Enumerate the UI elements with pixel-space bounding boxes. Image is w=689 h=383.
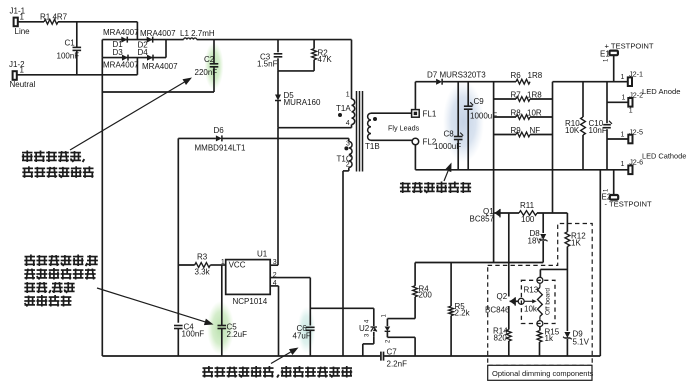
wire neutral <box>17 74 137 76</box>
svg-text:L1 2.7mH: L1 2.7mH <box>180 29 215 38</box>
wire bridge left side <box>101 40 103 58</box>
svg-text:5.1V: 5.1V <box>573 338 590 347</box>
svg-text:D6: D6 <box>214 126 225 135</box>
svg-text:NF: NF <box>530 126 541 135</box>
wire line input <box>18 21 44 23</box>
svg-text:BC857: BC857 <box>470 215 495 224</box>
svg-text:1k: 1k <box>545 334 554 343</box>
capacitor C1 <box>57 22 82 75</box>
ic U1 NCP1014 <box>221 250 277 307</box>
node line to bridge top <box>136 22 138 40</box>
wire R1 to bridge <box>58 21 137 23</box>
svg-text:Q2: Q2 <box>497 292 508 301</box>
svg-text:C8: C8 <box>444 130 455 139</box>
svg-text:T1B: T1B <box>365 142 380 151</box>
label LED Anode <box>642 87 680 96</box>
svg-text:J2-1: J2-1 <box>629 70 643 79</box>
svg-text:47uF: 47uF <box>293 332 311 341</box>
transformer aux T1C <box>337 138 353 171</box>
wire bottom rail right <box>384 355 600 357</box>
label MRA4007 D4 <box>142 62 178 71</box>
svg-text:U1: U1 <box>257 250 268 259</box>
svg-text:1: 1 <box>20 13 25 22</box>
wire bank right to R11 <box>552 135 554 214</box>
wire snubber bottom <box>278 70 314 72</box>
wire pot top branch <box>540 269 567 277</box>
diode D5 <box>275 91 321 107</box>
diode D3 <box>113 48 129 61</box>
resistor R9 <box>494 126 553 137</box>
svg-text:MMBD914LT1: MMBD914LT1 <box>195 144 247 153</box>
resistor R15 <box>537 328 560 357</box>
svg-text:NCP1014: NCP1014 <box>233 297 268 306</box>
svg-text:D7 MURS320T3: D7 MURS320T3 <box>427 71 486 80</box>
highlight ellipse around C6 <box>298 307 316 354</box>
svg-text:1R8: 1R8 <box>528 71 543 80</box>
svg-text:220nF: 220nF <box>195 68 218 77</box>
svg-text:1: 1 <box>622 95 626 102</box>
wire U1 pin4 stub <box>270 286 278 356</box>
resistor R4 <box>413 263 433 300</box>
wire bottom rail left <box>102 355 380 357</box>
svg-text:R11: R11 <box>520 201 535 210</box>
svg-text:C9: C9 <box>474 97 485 106</box>
wire junction to D5 <box>277 71 279 95</box>
wire primary bottom horizontal <box>278 127 352 129</box>
capacitor C2 <box>195 40 219 92</box>
capacitor C10 <box>589 119 613 170</box>
resistor R8 <box>494 108 553 119</box>
svg-text:Optional dimming components: Optional dimming components <box>492 369 594 378</box>
svg-text:R8: R8 <box>511 108 522 117</box>
transistor Q2 <box>485 292 516 315</box>
label MRA4007 D2 <box>140 29 176 38</box>
wire R12 down <box>566 247 568 332</box>
annotation arrow to C6 <box>271 348 299 364</box>
wire D8 to collector line <box>542 241 544 263</box>
svg-text:100: 100 <box>521 215 535 224</box>
svg-text:100nF: 100nF <box>182 330 205 339</box>
annotation arrow to C5 <box>97 288 214 325</box>
testpoint E1 <box>600 42 654 82</box>
diode D7 <box>427 71 486 85</box>
wire aux to D6 <box>178 137 216 139</box>
svg-text:3.3k: 3.3k <box>195 268 211 277</box>
wire bridge right side <box>165 40 167 58</box>
wire secondary bottom to FL2 <box>371 139 412 141</box>
svg-text:1: 1 <box>621 74 625 81</box>
svg-text:E1: E1 <box>600 50 610 59</box>
highlight ellipse around C5 <box>207 301 234 355</box>
svg-text:BC846: BC846 <box>485 306 510 315</box>
optional dimming dashed box <box>488 224 593 366</box>
wire FL1 riser <box>414 82 416 110</box>
annotation add output cap text <box>400 182 471 194</box>
svg-text:1: 1 <box>346 92 350 99</box>
svg-text:1: 1 <box>621 161 625 168</box>
svg-text:T1A: T1A <box>336 104 351 113</box>
wire opto pin2 return <box>387 337 415 356</box>
zener D9 <box>563 330 590 347</box>
label fly leads <box>388 124 420 133</box>
svg-text:J2-5: J2-5 <box>629 128 643 137</box>
wire C3 to junction <box>277 58 279 71</box>
highlight ellipse around C2 <box>205 42 224 90</box>
capacitor C9 <box>464 82 497 170</box>
wire Q2 emitter down <box>508 306 510 330</box>
svg-text:D4: D4 <box>138 48 149 57</box>
annotation arrow to C8 C9 <box>444 163 452 182</box>
svg-text:1: 1 <box>20 66 25 75</box>
transformer secondary T1B <box>365 113 380 151</box>
svg-text:LED Anode: LED Anode <box>642 87 680 96</box>
resistor R12 <box>565 213 586 248</box>
svg-text:R6: R6 <box>511 71 522 80</box>
label MRA4007 D3 <box>103 61 139 70</box>
off board dashed box <box>521 280 555 323</box>
capacitor C4 <box>174 323 204 357</box>
wire Q2 to wiper <box>510 300 519 302</box>
diode D6 <box>195 126 247 153</box>
svg-text:C1: C1 <box>65 39 76 48</box>
resistor R5 <box>449 263 471 357</box>
svg-text:LED Cathode: LED Cathode <box>642 152 686 161</box>
wire aux left vertical <box>177 138 179 322</box>
svg-text:C7: C7 <box>387 348 398 357</box>
svg-text:R3: R3 <box>197 253 208 262</box>
resistor R3 <box>178 253 225 277</box>
svg-text:R1 4R7: R1 4R7 <box>40 13 68 22</box>
transistor Q1 <box>470 207 501 224</box>
label MRA4007 D1 <box>103 28 139 37</box>
svg-text:J2-6: J2-6 <box>629 158 643 167</box>
capacitor C5 <box>218 323 248 357</box>
wire secondary ground rail <box>415 169 628 171</box>
svg-text:1: 1 <box>621 131 625 138</box>
terminal FL1 <box>412 110 437 119</box>
resistor R2 <box>312 40 333 71</box>
svg-text:Line: Line <box>15 27 31 36</box>
resistor R1 <box>40 13 68 25</box>
svg-text:47K: 47K <box>318 55 333 64</box>
wire top rail to transformer <box>214 39 352 41</box>
wire bank right <box>552 82 554 135</box>
wire T1C bottom return <box>343 171 349 356</box>
terminal FL2 <box>412 138 437 147</box>
svg-text:MURA160: MURA160 <box>284 98 321 107</box>
zener D8 <box>528 229 548 246</box>
svg-text:2.2k: 2.2k <box>455 309 471 318</box>
connector J2-2 <box>622 91 644 115</box>
wire ground loop right <box>599 170 601 356</box>
connector J2-5 <box>621 128 643 144</box>
wire D9 to rail <box>566 339 568 356</box>
svg-text:R9: R9 <box>511 126 522 135</box>
connector J1-2 <box>9 60 36 89</box>
svg-text:2.2nF: 2.2nF <box>387 360 408 369</box>
svg-text:10nF: 10nF <box>589 126 607 135</box>
svg-text:D3: D3 <box>113 48 124 57</box>
wire secondary control rail <box>415 262 543 264</box>
svg-text:1: 1 <box>221 259 225 266</box>
svg-text:2: 2 <box>346 162 350 169</box>
connector J1-1 <box>10 7 31 37</box>
inductor L1 <box>180 29 215 40</box>
wire bridge plus to L1 <box>166 39 184 41</box>
svg-text:FL1: FL1 <box>423 110 437 119</box>
wire D5 to primary bottom <box>277 101 279 128</box>
wire D7 to bank <box>442 81 516 83</box>
svg-text:10k: 10k <box>524 305 538 314</box>
resistor R14 <box>493 327 511 357</box>
capacitor C8 <box>434 82 463 170</box>
wire Q2 base drop <box>508 213 510 297</box>
label LED Cathode <box>642 152 686 161</box>
svg-text:1K: 1K <box>571 239 581 248</box>
wire J2-5 row <box>607 138 628 140</box>
wire bank left to Q1 <box>493 135 495 263</box>
wire Q1 base row <box>494 212 519 214</box>
svg-text:820: 820 <box>494 334 508 343</box>
wire U1 pin2 stub <box>270 277 310 279</box>
resistor R7 <box>494 91 553 102</box>
capacitor C3 <box>257 53 282 69</box>
svg-text:1000uF: 1000uF <box>434 142 461 151</box>
connector J2-1 <box>621 70 643 87</box>
annotation reduce cap multi-line text <box>24 255 98 307</box>
resistor R11 <box>519 201 537 224</box>
potentiometer R13 <box>518 277 543 326</box>
wire L1 to C2 corner <box>197 39 214 41</box>
wire output column <box>606 82 608 124</box>
wire secondary top to FL1 <box>371 112 412 114</box>
capacitor C7 <box>381 348 407 369</box>
wire R11 to corner <box>537 212 567 214</box>
wire FL2 riser <box>414 145 416 170</box>
optocoupler U2 <box>359 308 392 356</box>
svg-text:18V: 18V <box>528 237 543 246</box>
svg-text:- TESTPOINT: - TESTPOINT <box>605 200 652 209</box>
svg-text:VCC: VCC <box>229 261 246 270</box>
svg-text:MRA4007: MRA4007 <box>140 29 176 38</box>
wire bridge minus down <box>101 58 103 356</box>
wire bank left <box>493 82 495 135</box>
annotation reduce bulk cap text <box>22 151 94 178</box>
transformer core <box>357 91 363 172</box>
svg-text:U2: U2 <box>359 324 370 333</box>
wire C2 bottom return <box>102 91 214 93</box>
wire opto pin1 to R4 <box>387 297 415 319</box>
svg-text:Fly Leads: Fly Leads <box>388 124 420 133</box>
wire bridge bottom row <box>102 57 166 59</box>
wire FB vertical <box>309 278 311 326</box>
wire bridge top row <box>102 39 166 41</box>
svg-text:1.5nF: 1.5nF <box>257 60 278 69</box>
svg-text:1R8: 1R8 <box>527 91 542 100</box>
wire D8 branch <box>542 213 544 233</box>
svg-text:R7: R7 <box>511 91 522 100</box>
wire bank to J2-1 <box>553 81 629 83</box>
annotation slow loop text <box>202 366 352 378</box>
transformer primary T1A <box>336 40 355 128</box>
diode D4 <box>138 48 154 61</box>
svg-text:1: 1 <box>629 108 633 115</box>
testpoint E2 <box>602 170 652 209</box>
svg-text:C2: C2 <box>204 55 215 64</box>
wire FB to opto <box>310 307 374 309</box>
wire D6 to T1C pin3 <box>222 137 349 139</box>
svg-text:200: 200 <box>419 291 433 300</box>
wire J2-2 row <box>607 101 628 103</box>
wire pot bottom to R15 <box>539 327 541 331</box>
svg-text:2.2uF: 2.2uF <box>227 330 248 339</box>
capacitor C6 <box>293 324 315 356</box>
resistor R6 <box>511 71 543 84</box>
svg-text:Off board: Off board <box>545 288 552 315</box>
wire C5 branch <box>221 265 223 325</box>
svg-text:+ TESTPOINT: + TESTPOINT <box>605 42 654 51</box>
connector J2-6 <box>621 158 644 175</box>
resistor R10 <box>565 82 585 170</box>
optional dimming label box <box>488 365 594 380</box>
wire top rail to C3 <box>277 40 279 53</box>
svg-text:100nF: 100nF <box>57 52 80 61</box>
svg-text:MRA4007: MRA4007 <box>142 62 178 71</box>
svg-text:10K: 10K <box>565 126 580 135</box>
node neutral to bridge bottom <box>136 58 138 75</box>
svg-text:R13: R13 <box>524 286 539 295</box>
highlight ellipse around C8 C9 <box>443 81 484 163</box>
svg-text:4: 4 <box>346 120 350 127</box>
diode D2 <box>138 37 153 50</box>
annotation arrow to C2 <box>70 78 192 151</box>
svg-text:10R: 10R <box>527 108 542 117</box>
svg-text:MRA4007: MRA4007 <box>103 61 139 70</box>
svg-text:MRA4007: MRA4007 <box>103 28 139 37</box>
wire U1 pin3 stub <box>270 128 278 266</box>
diode D1 <box>113 37 128 49</box>
wire anode rail to D7 <box>415 81 436 83</box>
svg-text:Neutral: Neutral <box>10 80 36 89</box>
